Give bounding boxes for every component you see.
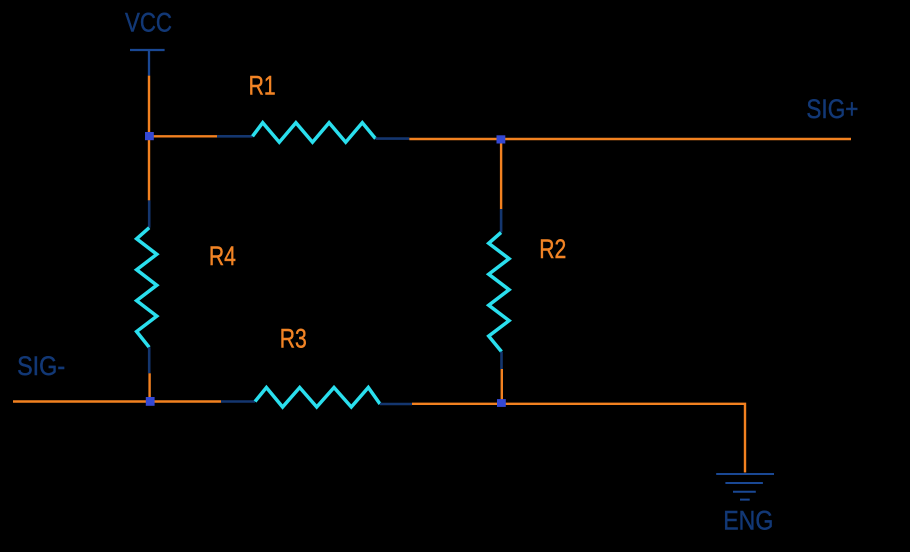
ground symbol ENG — [716, 474, 774, 500]
resistor R1 — [217, 123, 409, 143]
svg-text:ENG: ENG — [723, 504, 773, 535]
svg-text:VCC: VCC — [125, 7, 172, 38]
svg-text:R4: R4 — [209, 240, 236, 271]
wire SIG- end through node C to R3 left lead — [13, 400, 221, 402]
resistor R2 — [489, 209, 509, 369]
svg-text:SIG-: SIG- — [17, 350, 65, 381]
power symbol VCC — [130, 50, 165, 76]
node A junction — [145, 132, 154, 140]
wire R2 bottom lead to node D — [501, 369, 503, 403]
wire R3 right lead through node D to ground drop — [412, 404, 745, 473]
wire R1 right lead to SIG+ end through node B — [409, 138, 851, 140]
node B junction — [497, 135, 506, 143]
node C junction — [146, 397, 155, 406]
node D junction — [497, 399, 506, 407]
svg-text:R2: R2 — [539, 233, 566, 264]
wire node B to R2 top lead — [500, 139, 502, 209]
resistor R4 — [137, 200, 157, 373]
wire R4 bottom lead to node C — [148, 373, 150, 401]
svg-text:R3: R3 — [280, 323, 307, 354]
wire node A to R1 left lead — [149, 135, 217, 137]
wire VCC stem through node A down to R4 top — [148, 76, 150, 201]
svg-text:R1: R1 — [249, 69, 276, 100]
svg-text:SIG+: SIG+ — [806, 93, 858, 124]
resistor R3 — [221, 388, 412, 408]
